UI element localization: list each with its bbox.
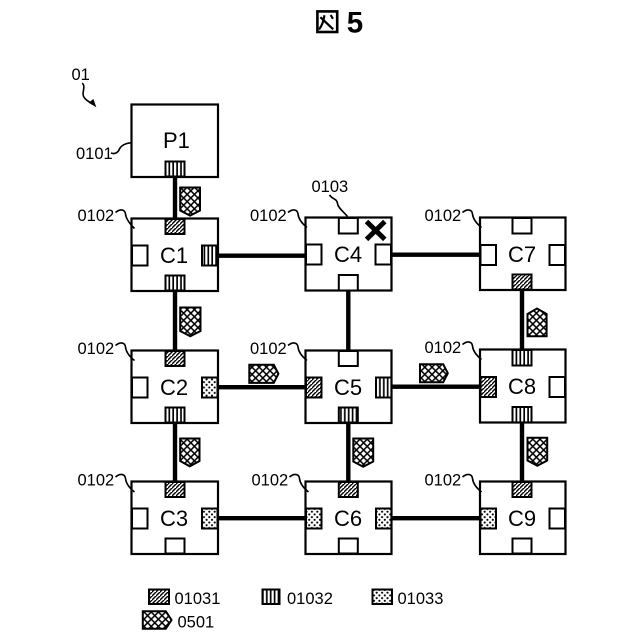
svg-text:0501: 0501 (178, 614, 215, 632)
wire C4 to C5 (346, 288, 350, 354)
wire C2 to C3 (173, 420, 177, 485)
svg-text:5: 5 (347, 7, 363, 40)
port C2 top 01031 (166, 351, 185, 366)
port C3 top 01031 (166, 482, 185, 497)
port C1 right 01032 (202, 246, 218, 266)
port C7 bottom 01031 (513, 275, 532, 290)
leader 0102 to C6 (290, 474, 309, 492)
port C9 right unused (550, 509, 566, 529)
svg-text:P1: P1 (163, 128, 190, 153)
svg-text:C1: C1 (160, 243, 188, 268)
port C8 left 01031 (481, 377, 497, 397)
port C4 right unused (376, 245, 392, 265)
badge 0501 on wire C5-C6 (353, 439, 373, 467)
port C9 left 01033 (481, 509, 497, 529)
node C1 (132, 219, 219, 292)
port C7 top unused (513, 218, 532, 234)
wire C2 to C5 (214, 385, 309, 389)
leader 0102 to C2 (116, 343, 135, 361)
wire C1 to C2 (173, 288, 177, 354)
badge 0501 on wire C1-C2 (180, 308, 200, 337)
node C5 (306, 351, 392, 424)
wire P1 to C1 (173, 170, 177, 222)
svg-text:01032: 01032 (287, 590, 333, 608)
port C2 right 01033 (202, 378, 218, 398)
port C9 top 01031 (513, 482, 532, 497)
svg-text:01033: 01033 (398, 590, 444, 608)
port C8 bottom 01032 (513, 407, 532, 423)
svg-text:0102: 0102 (425, 339, 462, 357)
port C5 right 01032 (376, 378, 392, 398)
leader 0101 to P1 (111, 143, 131, 154)
node C2 (132, 351, 219, 424)
port C8 right unused (550, 377, 566, 397)
legend swatch 01031 (149, 590, 169, 605)
port C5 bottom 01032 (339, 408, 358, 423)
legend swatch 01033 (373, 590, 393, 605)
svg-text:0101: 0101 (76, 145, 113, 163)
wire C7 to C8 (520, 287, 524, 354)
leader 0102 to C1 (116, 210, 135, 229)
leader 0102 to C7 (463, 210, 482, 228)
badge 0501 on wire C2-C3 (180, 439, 199, 467)
badge 0501 on wire C7-C8 pointing up (528, 309, 547, 337)
port C9 bottom unused (513, 539, 532, 554)
leader 0102 to C9 (463, 474, 482, 492)
svg-text:0102: 0102 (78, 340, 115, 358)
leader 0103 to C4 top port (330, 195, 348, 217)
badge 0501 on wire C5-C8 pointing right (420, 364, 448, 382)
node C4 (306, 218, 392, 291)
port C5 top unused (339, 351, 358, 366)
figure title 図5 (317, 7, 363, 40)
node C8 (480, 350, 566, 423)
svg-text:0102: 0102 (425, 207, 462, 225)
svg-text:C2: C2 (160, 375, 188, 400)
port C5 left 01031 (306, 378, 322, 398)
port C6 bottom unused (339, 539, 358, 554)
port C1 top 01031 (166, 219, 185, 234)
svg-text:0102: 0102 (78, 472, 115, 490)
wire C3 to C6 (214, 516, 309, 520)
node P1 (132, 105, 219, 178)
svg-text:C9: C9 (508, 506, 536, 531)
node C6 (306, 482, 392, 555)
svg-text:C6: C6 (334, 506, 362, 531)
wire C8 to C9 (520, 420, 524, 485)
svg-text:01: 01 (72, 66, 90, 84)
svg-text:0102: 0102 (78, 207, 115, 225)
badge 0501 on wire P1-C1 (180, 188, 200, 216)
svg-text:0102: 0102 (252, 472, 289, 490)
wire C6 to C9 (388, 516, 483, 520)
port C3 right 01033 (202, 509, 218, 529)
legend swatch 01032 (263, 590, 280, 605)
svg-text:0102: 0102 (425, 472, 462, 490)
svg-text:C3: C3 (160, 506, 188, 531)
port C3 left unused (132, 509, 148, 529)
leader 0102 to C4 (288, 210, 307, 228)
legend badge 0501 (143, 611, 172, 629)
port C4 left unused (306, 245, 322, 265)
wire C5 to C6 (346, 420, 350, 485)
svg-text:C4: C4 (334, 242, 362, 267)
leader 0102 to C5 (288, 343, 307, 361)
badge 0501 on wire C2-C5 pointing right (249, 365, 278, 383)
port C7 right unused (550, 245, 566, 265)
port C6 left 01033 (306, 509, 322, 529)
leader 0102 to C8 (463, 342, 482, 360)
node C7 (480, 218, 566, 291)
wire C5 to C8 (388, 385, 483, 389)
svg-text:C5: C5 (334, 375, 362, 400)
svg-text:0102: 0102 (250, 340, 287, 358)
badge 0501 on wire C8-C9 (528, 438, 548, 466)
port C2 left unused (132, 378, 148, 398)
port C4 top unused (339, 218, 358, 234)
failure mark X on C4 (367, 222, 385, 240)
port C2 bottom 01032 (166, 408, 185, 423)
svg-text:C7: C7 (508, 242, 536, 267)
svg-text:C8: C8 (508, 374, 536, 399)
port C6 top 01031 (339, 482, 358, 497)
port C6 right 01033 (376, 509, 392, 529)
port C1 left unused (132, 246, 148, 266)
leader 0102 to C3 (116, 474, 135, 492)
node C3 (132, 482, 219, 555)
wire C1 to C4 (214, 254, 309, 258)
port C4 bottom unused (339, 275, 358, 291)
arrow from label 01 (82, 83, 96, 107)
port P1 bottom 01032 (166, 162, 185, 177)
svg-text:01031: 01031 (175, 590, 221, 608)
port C7 left unused (481, 245, 497, 265)
svg-text:0103: 0103 (312, 178, 349, 196)
port C1 bottom 01032 (166, 276, 185, 291)
port C3 bottom unused (166, 539, 185, 554)
svg-text:0102: 0102 (250, 207, 287, 225)
node C9 (480, 482, 566, 555)
wire C4 to C7 (388, 253, 483, 257)
port C8 top 01032 (513, 350, 532, 366)
